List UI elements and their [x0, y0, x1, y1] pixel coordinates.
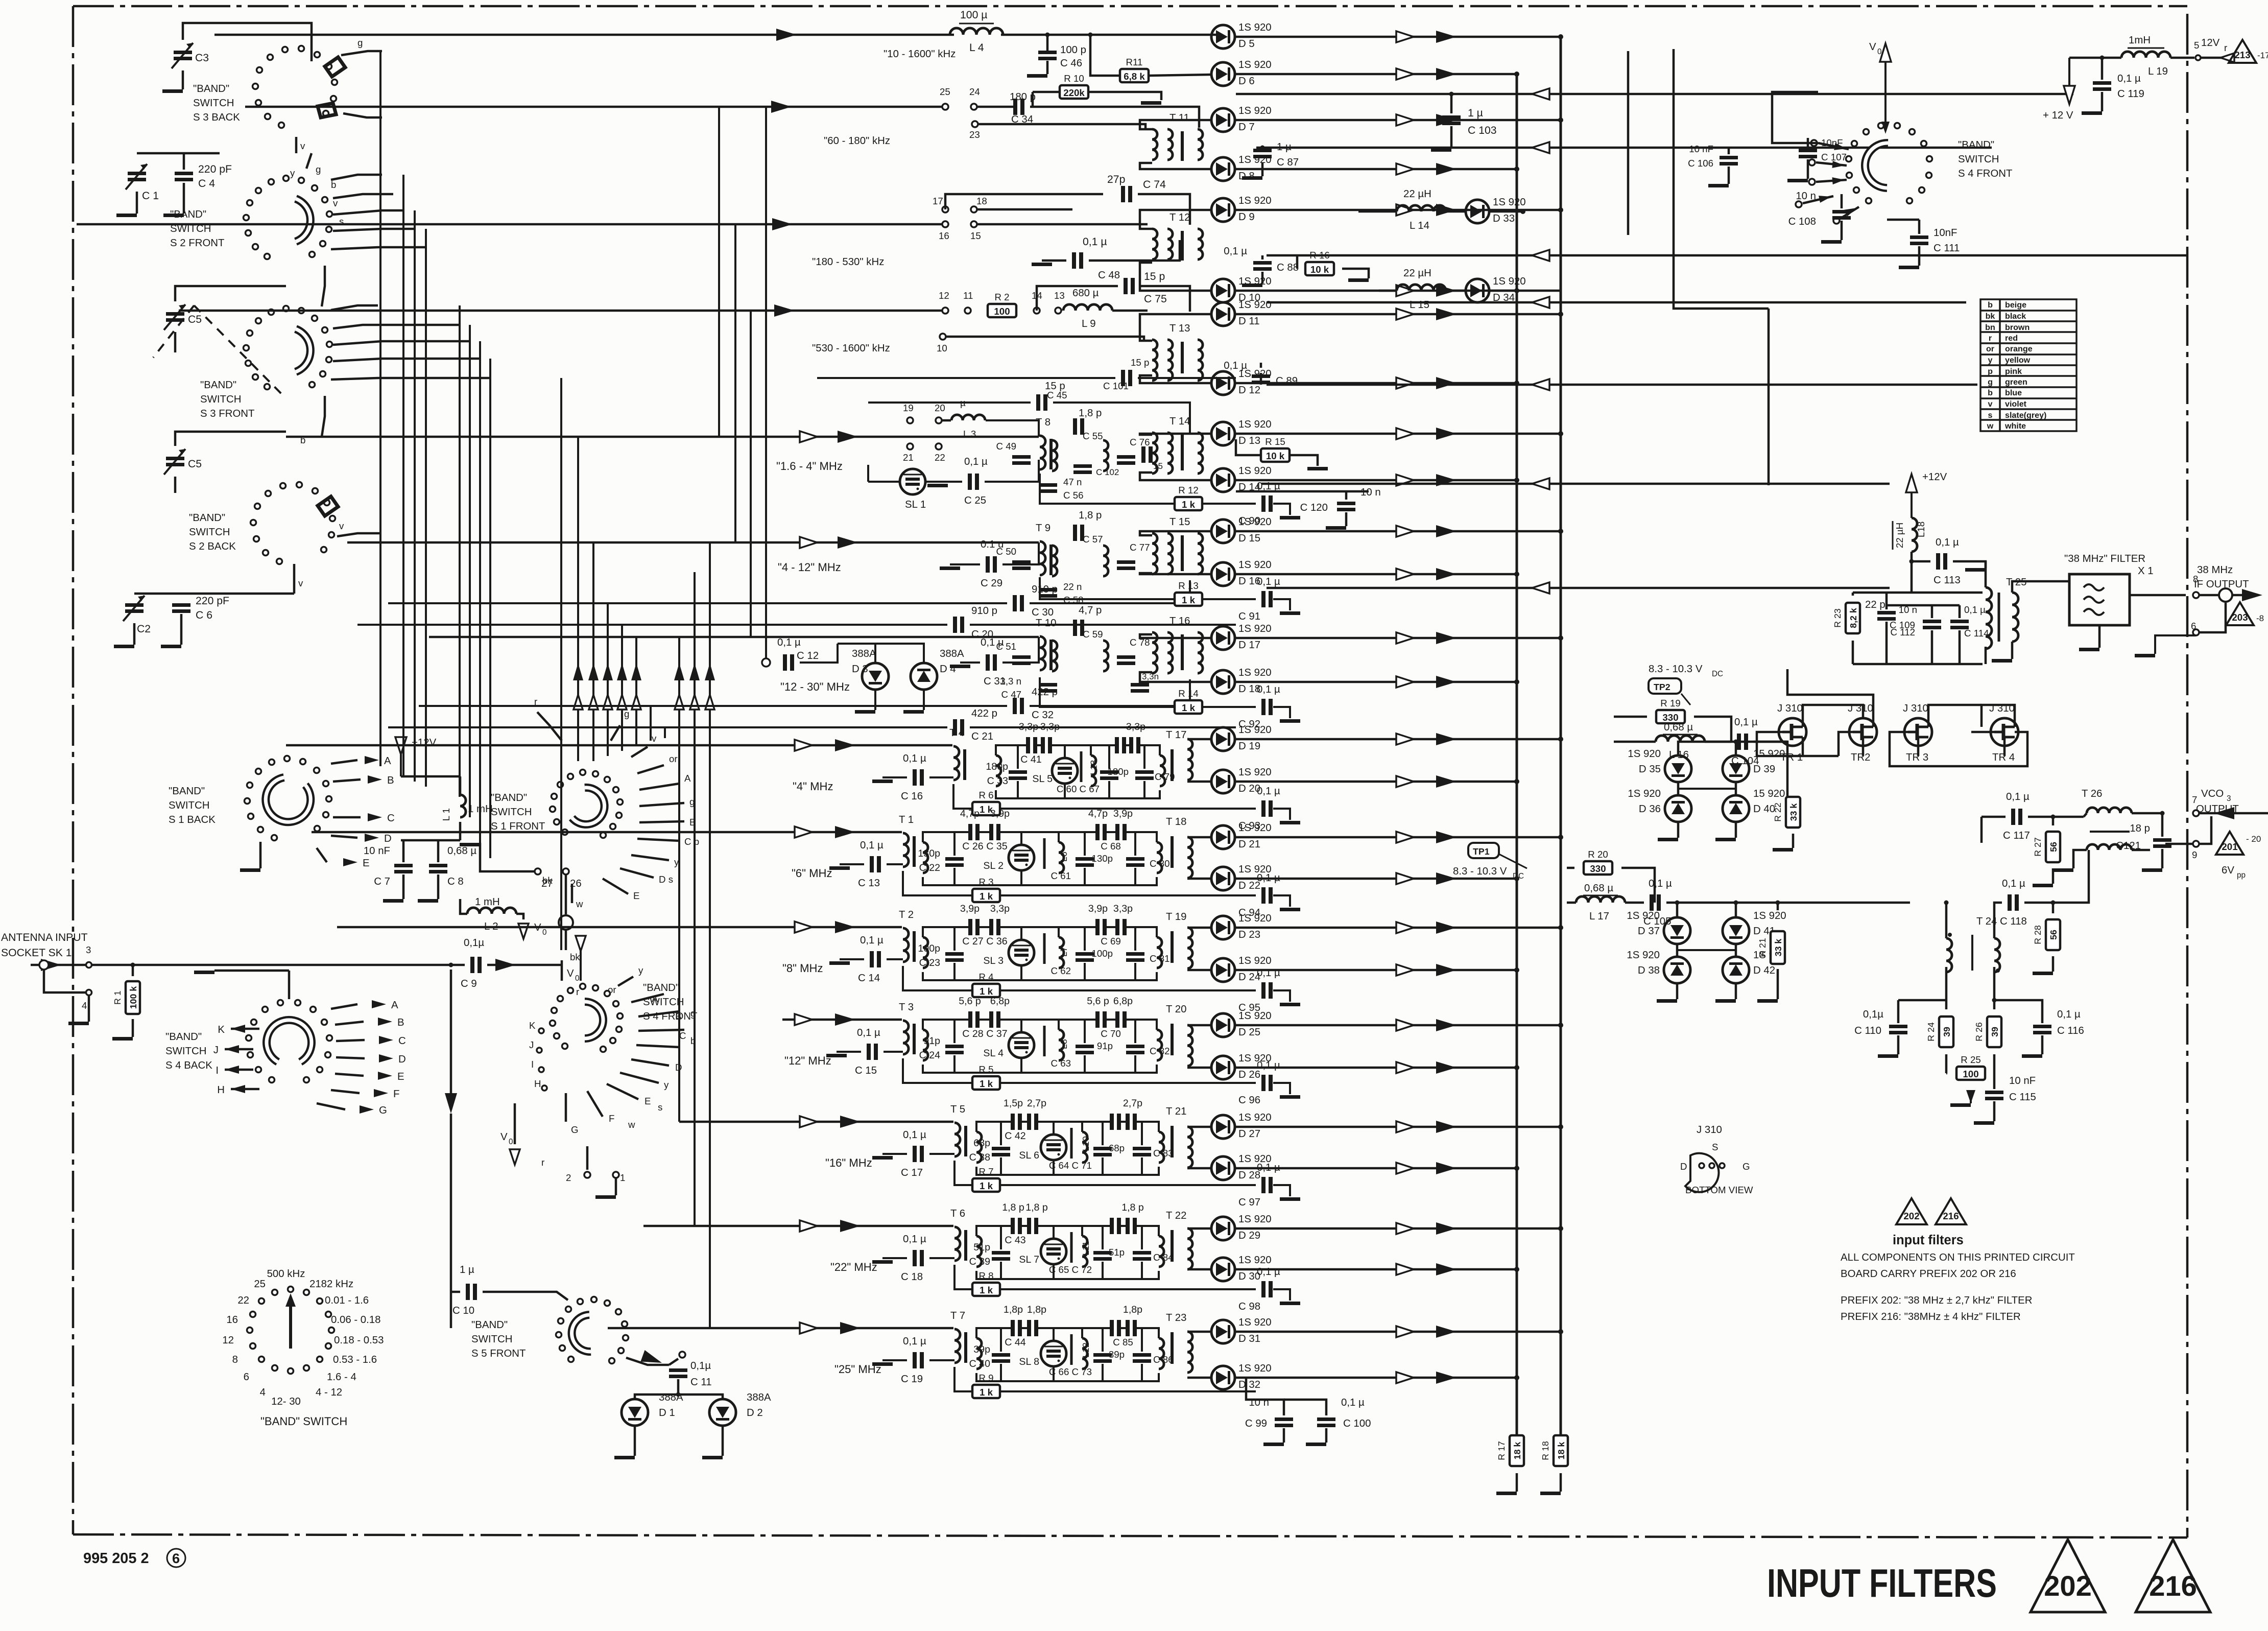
wire D 17 to bus	[1235, 632, 1563, 644]
band switch S3 BACK	[193, 46, 345, 128]
inductor L17 0.68u	[1567, 883, 1644, 922]
svg-text:C3: C3	[195, 52, 209, 64]
diode D 14	[1211, 465, 1272, 493]
svg-text:"16" MHz: "16" MHz	[825, 1156, 872, 1169]
svg-text:39p: 39p	[973, 1344, 990, 1355]
svg-text:180 p: 180 p	[1010, 91, 1036, 103]
svg-text:910 p: 910 p	[1032, 584, 1058, 595]
svg-text:v: v	[1988, 399, 1993, 409]
svg-text:100 µ: 100 µ	[960, 9, 987, 21]
tank 8 MHz	[918, 903, 1169, 980]
capacitor C100 0.1u	[1284, 1397, 1371, 1446]
svg-text:33 k: 33 k	[1788, 803, 1799, 821]
svg-text:0,1 µ: 0,1 µ	[903, 753, 926, 764]
svg-text:R 3: R 3	[978, 877, 993, 887]
return wire	[1267, 582, 1890, 594]
diode D1 388A	[614, 1392, 683, 1459]
svg-text:1,8 p: 1,8 p	[1121, 1202, 1144, 1213]
resistor R 5 1k	[903, 1058, 1256, 1090]
svg-text:SOCKET SK 1: SOCKET SK 1	[1, 947, 72, 959]
diode D13 wire	[1140, 434, 1210, 435]
row 22 MHz wire	[643, 1220, 953, 1273]
row 10-1600 kHz wire	[214, 29, 956, 60]
transformer T15	[1152, 516, 1203, 574]
trimmer capacitor C5b	[164, 432, 286, 493]
band switch S4 FRONT top	[1846, 123, 2013, 204]
svg-text:100p: 100p	[918, 943, 940, 954]
svg-text:V: V	[1869, 41, 1876, 53]
capacitor C105 0.1u	[1643, 878, 1910, 927]
svg-text:T 2: T 2	[899, 909, 914, 920]
svg-text:22: 22	[935, 452, 945, 463]
svg-text:4 - 12: 4 - 12	[316, 1387, 342, 1398]
capacitor C107 10nF	[1787, 137, 1847, 182]
svg-text:H: H	[534, 1078, 541, 1089]
wire D 6 to bus	[1235, 68, 1519, 80]
svg-text:BOARD CARRY PREFIX 202 OR 21: BOARD CARRY PREFIX 202 OR 216	[1841, 1268, 2016, 1280]
resistor R24 39	[1926, 1000, 1953, 1073]
svg-text:C5: C5	[188, 314, 202, 325]
svg-text:T 1: T 1	[899, 814, 914, 825]
svg-text:C 42: C 42	[1005, 1130, 1025, 1142]
svg-text:L 4: L 4	[969, 42, 984, 54]
svg-text:v: v	[298, 578, 303, 588]
svg-text:"BAND": "BAND"	[165, 1031, 202, 1043]
svg-text:3,3 n: 3,3 n	[1000, 676, 1021, 687]
svg-text:1 k: 1 k	[980, 1078, 993, 1089]
svg-text:D 37: D 37	[1638, 926, 1660, 937]
svg-text:388A: 388A	[852, 648, 876, 659]
transformer T 6	[950, 1208, 966, 1261]
svg-text:4,7p: 4,7p	[960, 808, 980, 819]
svg-text:1 µ: 1 µ	[460, 1264, 474, 1275]
svg-text:0,1 µ: 0,1 µ	[1257, 967, 1280, 979]
svg-text:"BAND": "BAND"	[200, 380, 236, 391]
svg-text:- 20: - 20	[2246, 834, 2261, 844]
svg-text:R 16: R 16	[1309, 250, 1329, 261]
svg-text:R 4: R 4	[978, 972, 993, 982]
svg-text:r: r	[2224, 42, 2227, 53]
svg-text:D: D	[1680, 1161, 1687, 1172]
svg-text:C 101: C 101	[1103, 381, 1129, 391]
svg-text:6: 6	[244, 1372, 249, 1383]
svg-text:1S 920: 1S 920	[1493, 197, 1526, 208]
svg-text:3,3p: 3,3p	[1113, 903, 1133, 914]
pin 6 gnd	[2135, 603, 2226, 657]
slug SL1	[868, 465, 926, 510]
antenna input wire	[31, 944, 465, 1025]
capacitor C106 10nF	[1688, 144, 1738, 187]
svg-text:R 21: R 21	[1757, 938, 1768, 957]
contact 10	[937, 334, 1144, 353]
resistor R23 8.2k	[1832, 593, 1860, 664]
transformer T9	[1036, 523, 1051, 575]
capacitor C8 0.68u	[401, 840, 476, 903]
inductor L15 22uH	[1379, 268, 1465, 311]
svg-text:DC: DC	[1712, 670, 1723, 678]
svg-text:C 1: C 1	[142, 190, 159, 202]
diode D 7	[1211, 105, 1272, 133]
tank 12 MHz	[919, 996, 1170, 1073]
svg-text:black: black	[2005, 312, 2026, 321]
svg-text:D 42: D 42	[1753, 965, 1775, 976]
svg-text:s: s	[1988, 411, 1993, 420]
svg-text:1,8 p: 1,8 p	[1079, 408, 1102, 419]
svg-text:0,1 µ: 0,1 µ	[1964, 604, 1986, 615]
svg-text:1S 920: 1S 920	[1628, 788, 1661, 799]
svg-text:brown: brown	[2005, 323, 2030, 332]
resistor R 3 1k	[903, 871, 1256, 902]
svg-text:22 µH: 22 µH	[1403, 188, 1431, 200]
svg-text:C 19: C 19	[901, 1374, 923, 1385]
resistor R16 10k	[1297, 250, 1369, 282]
svg-text:S 1 BACK: S 1 BACK	[169, 814, 216, 825]
svg-text:bk: bk	[570, 952, 580, 962]
svg-text:C 97: C 97	[1238, 1197, 1260, 1208]
svg-text:6: 6	[172, 1550, 180, 1566]
svg-text:1S 920: 1S 920	[1238, 299, 1272, 311]
svg-text:22 n: 22 n	[1063, 581, 1082, 592]
svg-text:1S 920: 1S 920	[1238, 465, 1272, 477]
svg-text:C 68: C 68	[1101, 841, 1120, 852]
svg-text:1S 920: 1S 920	[1753, 910, 1786, 921]
svg-text:0,1 µ: 0,1 µ	[2057, 1009, 2081, 1020]
row 4-12 MHz wire	[347, 536, 1039, 574]
svg-text:R 12: R 12	[1178, 485, 1198, 495]
resistor R 7 1k	[954, 1161, 1256, 1192]
bus line right	[1560, 37, 1562, 1439]
svg-text:p: p	[1988, 367, 1993, 376]
transformer T 20	[1166, 1004, 1211, 1068]
svg-text:B: B	[397, 1017, 404, 1028]
row 180-530 kHz wire	[77, 218, 942, 268]
wire D 8 to bus	[1235, 163, 1519, 175]
diode D11 wire	[1140, 314, 1210, 341]
svg-text:C2: C2	[137, 623, 151, 635]
svg-text:12- 30: 12- 30	[271, 1396, 301, 1407]
svg-text:19: 19	[903, 403, 914, 413]
contacts 16 15 17 18	[933, 194, 1148, 241]
diode D 8	[1211, 154, 1272, 182]
svg-text:0,1 µ: 0,1 µ	[1341, 1397, 1365, 1408]
svg-text:F: F	[393, 1089, 399, 1100]
svg-text:C 30: C 30	[1032, 607, 1054, 618]
svg-text:"60 - 180" kHz: "60 - 180" kHz	[824, 135, 890, 147]
svg-text:91p: 91p	[923, 1035, 940, 1047]
svg-text:0,1 µ: 0,1 µ	[1734, 717, 1758, 728]
diode D 17	[1211, 623, 1272, 651]
diode D8 wire	[1140, 163, 1210, 169]
svg-text:E: E	[633, 890, 639, 901]
inductor L19 1mH	[2069, 35, 2234, 77]
svg-text:1,8p: 1,8p	[1004, 1304, 1023, 1315]
svg-text:C 88: C 88	[1277, 262, 1299, 273]
svg-text:2: 2	[566, 1172, 571, 1183]
svg-text:0,1 µ: 0,1 µ	[1257, 684, 1280, 695]
svg-text:SL 8: SL 8	[1019, 1356, 1039, 1367]
svg-text:3: 3	[2227, 794, 2231, 803]
svg-text:15: 15	[970, 230, 981, 241]
tank 4-12	[996, 510, 1150, 605]
bus line left	[1516, 74, 1518, 1439]
svg-text:1S 920: 1S 920	[1628, 748, 1661, 760]
transistor TR4	[1989, 703, 2018, 763]
+12V arrow right	[2043, 58, 2075, 121]
resistor R20 330	[1567, 849, 1655, 903]
diode D 11	[1211, 299, 1272, 327]
svg-text:0,1 µ: 0,1 µ	[1083, 236, 1107, 248]
svg-text:C 114: C 114	[1964, 628, 1989, 639]
TP2 label	[1649, 664, 1723, 705]
wire D 5 to bus	[1235, 31, 1563, 43]
svg-text:D 38: D 38	[1638, 965, 1660, 976]
transformer T10	[1036, 618, 1056, 670]
svg-text:S: S	[1712, 1142, 1718, 1152]
capacitor C113 0.1u	[1909, 537, 1986, 586]
svg-text:0: 0	[509, 1138, 513, 1146]
svg-text:0,1 µ: 0,1 µ	[1257, 1266, 1280, 1278]
svg-text:C 98: C 98	[1238, 1301, 1260, 1312]
diode D 23	[1211, 913, 1272, 940]
svg-text:56: 56	[2048, 930, 2059, 940]
svg-text:R 26: R 26	[1974, 1022, 1984, 1042]
svg-text:J: J	[213, 1045, 219, 1056]
svg-text:D: D	[398, 1054, 406, 1065]
svg-text:3,9p: 3,9p	[960, 903, 980, 914]
capacitor C25 0.1u	[926, 456, 1039, 506]
svg-text:6: 6	[2191, 621, 2196, 631]
diode D40	[1723, 788, 1785, 822]
svg-text:beige: beige	[2005, 300, 2026, 310]
svg-text:C 94: C 94	[1238, 907, 1260, 918]
svg-text:D 17: D 17	[1238, 640, 1260, 651]
svg-text:10nF: 10nF	[1821, 137, 1843, 148]
wire D 12 to bus	[1235, 377, 1519, 389]
svg-text:C 44: C 44	[1005, 1337, 1025, 1348]
svg-text:1S 920: 1S 920	[1238, 1317, 1272, 1328]
capacitor C75 15p	[1037, 271, 1190, 312]
svg-text:16: 16	[939, 230, 949, 241]
diode D41	[1723, 910, 1786, 944]
capacitor C31 0.1u	[950, 637, 1039, 687]
svg-text:"1.6 - 4" MHz: "1.6 - 4" MHz	[776, 460, 843, 472]
svg-text:"4" MHz: "4" MHz	[793, 780, 833, 793]
svg-text:8.3 - 10.3 V: 8.3 - 10.3 V	[1649, 664, 1703, 675]
transformer T 4	[949, 727, 965, 780]
svg-text:S 4 FRONT: S 4 FRONT	[1958, 168, 2013, 179]
svg-text:216: 216	[1943, 1211, 1959, 1221]
svg-text:C 110: C 110	[1854, 1025, 1881, 1036]
wire D 25 to bus	[1235, 1019, 1563, 1031]
svg-text:V: V	[567, 968, 574, 979]
svg-text:L12: L12	[1081, 1342, 1091, 1358]
resistor R21 33k	[1757, 931, 1785, 1003]
diode D 6	[1211, 59, 1272, 87]
svg-text:C 21: C 21	[971, 731, 993, 742]
svg-text:C 77: C 77	[1130, 542, 1150, 553]
svg-text:R 10: R 10	[1064, 73, 1084, 84]
svg-text:SL 1: SL 1	[905, 499, 926, 510]
svg-text:"530 - 1600" kHz: "530 - 1600" kHz	[812, 343, 890, 354]
svg-text:R 14: R 14	[1178, 688, 1198, 699]
svg-text:216: 216	[2149, 1570, 2197, 1602]
svg-text:C 4: C 4	[198, 178, 215, 190]
svg-text:68p: 68p	[973, 1138, 990, 1149]
trimmer capacitor C5	[164, 286, 286, 352]
svg-text:51p: 51p	[1109, 1247, 1125, 1258]
return wire	[1261, 478, 1890, 489]
svg-text:D 12: D 12	[1238, 385, 1260, 396]
svg-text:v: v	[652, 733, 657, 744]
diode D 16	[1211, 559, 1272, 587]
contacts 19-22 and L3	[903, 397, 1039, 463]
capacitor C97 0.1u	[1238, 1162, 1300, 1208]
svg-text:"BAND": "BAND"	[189, 512, 225, 524]
diode D 27	[1211, 1112, 1272, 1140]
svg-text:1S 920: 1S 920	[1238, 419, 1272, 430]
svg-text:G: G	[1742, 1161, 1750, 1172]
svg-text:R 7: R 7	[978, 1166, 993, 1177]
wire D 20 to bus	[1235, 775, 1519, 788]
svg-text:T 19: T 19	[1166, 911, 1186, 923]
svg-text:C 64 C 71: C 64 C 71	[1049, 1160, 1092, 1171]
svg-text:I: I	[531, 1059, 534, 1070]
diode D 12	[1211, 368, 1272, 396]
capacitor C98 0.1u	[1238, 1266, 1300, 1312]
svg-text:1.6 - 4: 1.6 - 4	[327, 1372, 356, 1383]
triangle 202 small	[1896, 1198, 1927, 1224]
svg-text:R 17: R 17	[1496, 1441, 1507, 1460]
svg-text:C 66 C 73: C 66 C 73	[1049, 1366, 1092, 1377]
svg-text:SWITCH: SWITCH	[200, 394, 241, 405]
band switch S2 FRONT	[170, 176, 332, 259]
svg-text:bk: bk	[1986, 312, 1995, 321]
svg-text:1S 920: 1S 920	[1238, 767, 1272, 778]
svg-text:or: or	[608, 984, 616, 995]
S4F top contact arrows	[1796, 140, 1859, 224]
svg-text:1S 920: 1S 920	[1238, 1255, 1272, 1266]
diode D9 wire	[1140, 210, 1210, 229]
svg-text:b: b	[331, 179, 336, 190]
wires S4Ftop box	[1628, 49, 1818, 485]
diode D 24	[1211, 955, 1272, 983]
svg-text:L 14: L 14	[1410, 220, 1429, 231]
svg-text:C 69: C 69	[1101, 936, 1120, 947]
inductor L18 22uH	[1893, 518, 1926, 593]
svg-text:1 k: 1 k	[980, 1180, 993, 1191]
svg-text:C 74: C 74	[1143, 179, 1166, 191]
svg-text:SL 4: SL 4	[983, 1048, 1004, 1059]
resistor R26 39	[1974, 998, 2042, 1074]
svg-text:C 57: C 57	[1083, 534, 1103, 545]
svg-text:green: green	[2005, 377, 2027, 387]
svg-text:R 9: R 9	[978, 1373, 993, 1383]
svg-text:C 23: C 23	[919, 957, 940, 968]
capacitor C116 0.1u	[2022, 1009, 2084, 1058]
svg-text:15 p: 15 p	[1144, 271, 1165, 282]
svg-text:y: y	[638, 965, 643, 976]
svg-text:21: 21	[903, 452, 914, 463]
transformer T 7	[950, 1310, 966, 1363]
wire D 10 to bus	[1235, 285, 1519, 297]
svg-text:201: 201	[2222, 841, 2237, 852]
svg-text:C 96: C 96	[1238, 1095, 1260, 1106]
contacts 27 26	[460, 843, 582, 950]
svg-text:SL 2: SL 2	[983, 860, 1004, 871]
svg-text:18 k: 18 k	[1512, 1442, 1522, 1460]
svg-text:y: y	[664, 1079, 669, 1090]
svg-text:C 85: C 85	[1113, 1337, 1133, 1348]
svg-text:SWITCH: SWITCH	[189, 527, 230, 538]
svg-text:1S 920: 1S 920	[1238, 623, 1272, 634]
svg-text:D 23: D 23	[1238, 929, 1260, 940]
svg-text:S 2 FRONT: S 2 FRONT	[170, 238, 225, 249]
svg-text:C 25: C 25	[964, 495, 986, 506]
return wire	[1256, 142, 1992, 153]
svg-text:0,1 µ: 0,1 µ	[1257, 1162, 1280, 1173]
svg-text:H: H	[217, 1084, 225, 1096]
svg-text:D: D	[384, 833, 392, 844]
wire D 15 to bus	[1235, 525, 1563, 537]
trimmer capacitor C3	[162, 23, 312, 93]
resistor R25 100	[1946, 1054, 1995, 1107]
svg-text:C 7: C 7	[374, 876, 390, 887]
svg-text:C 49: C 49	[996, 441, 1016, 452]
capacitor C34 180p	[1010, 91, 1199, 128]
diode D 28	[1211, 1153, 1272, 1181]
svg-text:A: A	[391, 1000, 398, 1011]
svg-text:1S 920: 1S 920	[1238, 59, 1272, 70]
svg-text:10 nF: 10 nF	[1689, 144, 1713, 154]
svg-text:D 33: D 33	[1493, 213, 1515, 224]
S4B arrows left	[194, 971, 289, 1096]
wire D 14 to bus	[1235, 474, 1519, 486]
svg-text:C 32: C 32	[1032, 710, 1054, 721]
svg-text:C 56: C 56	[1063, 490, 1083, 501]
capacitor C21 422p	[388, 708, 1236, 742]
svg-text:1 k: 1 k	[980, 986, 993, 997]
svg-text:R 18: R 18	[1540, 1441, 1550, 1460]
svg-text:4,7 p: 4,7 p	[1079, 605, 1102, 616]
svg-text:"12 - 30" MHz: "12 - 30" MHz	[780, 680, 850, 693]
svg-text:T 17: T 17	[1166, 729, 1186, 741]
svg-text:388A: 388A	[940, 648, 964, 659]
svg-text:X 1: X 1	[2138, 565, 2154, 577]
diode D15 wire	[1140, 531, 1210, 535]
wire D 26 to bus	[1235, 1061, 1519, 1074]
svg-text:1,8 p: 1,8 p	[1002, 1202, 1024, 1213]
svg-text:0,1 µ: 0,1 µ	[903, 1129, 926, 1141]
svg-text:C 47: C 47	[1001, 689, 1021, 700]
svg-text:39: 39	[1942, 1027, 1952, 1037]
resistor R1 100k	[112, 963, 140, 1041]
band switch S3 FRONT	[200, 306, 332, 420]
capacitor C99 10n	[1245, 1378, 1293, 1446]
svg-text:0,68 µ: 0,68 µ	[1584, 883, 1613, 894]
svg-text:D 29: D 29	[1238, 1230, 1260, 1241]
svg-text:0,1 µ: 0,1 µ	[1257, 786, 1280, 797]
svg-text:12V: 12V	[2201, 37, 2220, 49]
svg-text:0: 0	[542, 928, 547, 937]
svg-text:g: g	[357, 37, 363, 48]
svg-text:TP1: TP1	[1473, 846, 1490, 857]
svg-text:pp: pp	[2237, 871, 2246, 880]
svg-text:0,1 µ: 0,1 µ	[903, 1336, 926, 1347]
svg-text:D 5: D 5	[1238, 38, 1255, 50]
svg-text:VCO: VCO	[2201, 788, 2224, 799]
left wire bundle	[380, 51, 561, 950]
return wire	[1267, 297, 1966, 308]
